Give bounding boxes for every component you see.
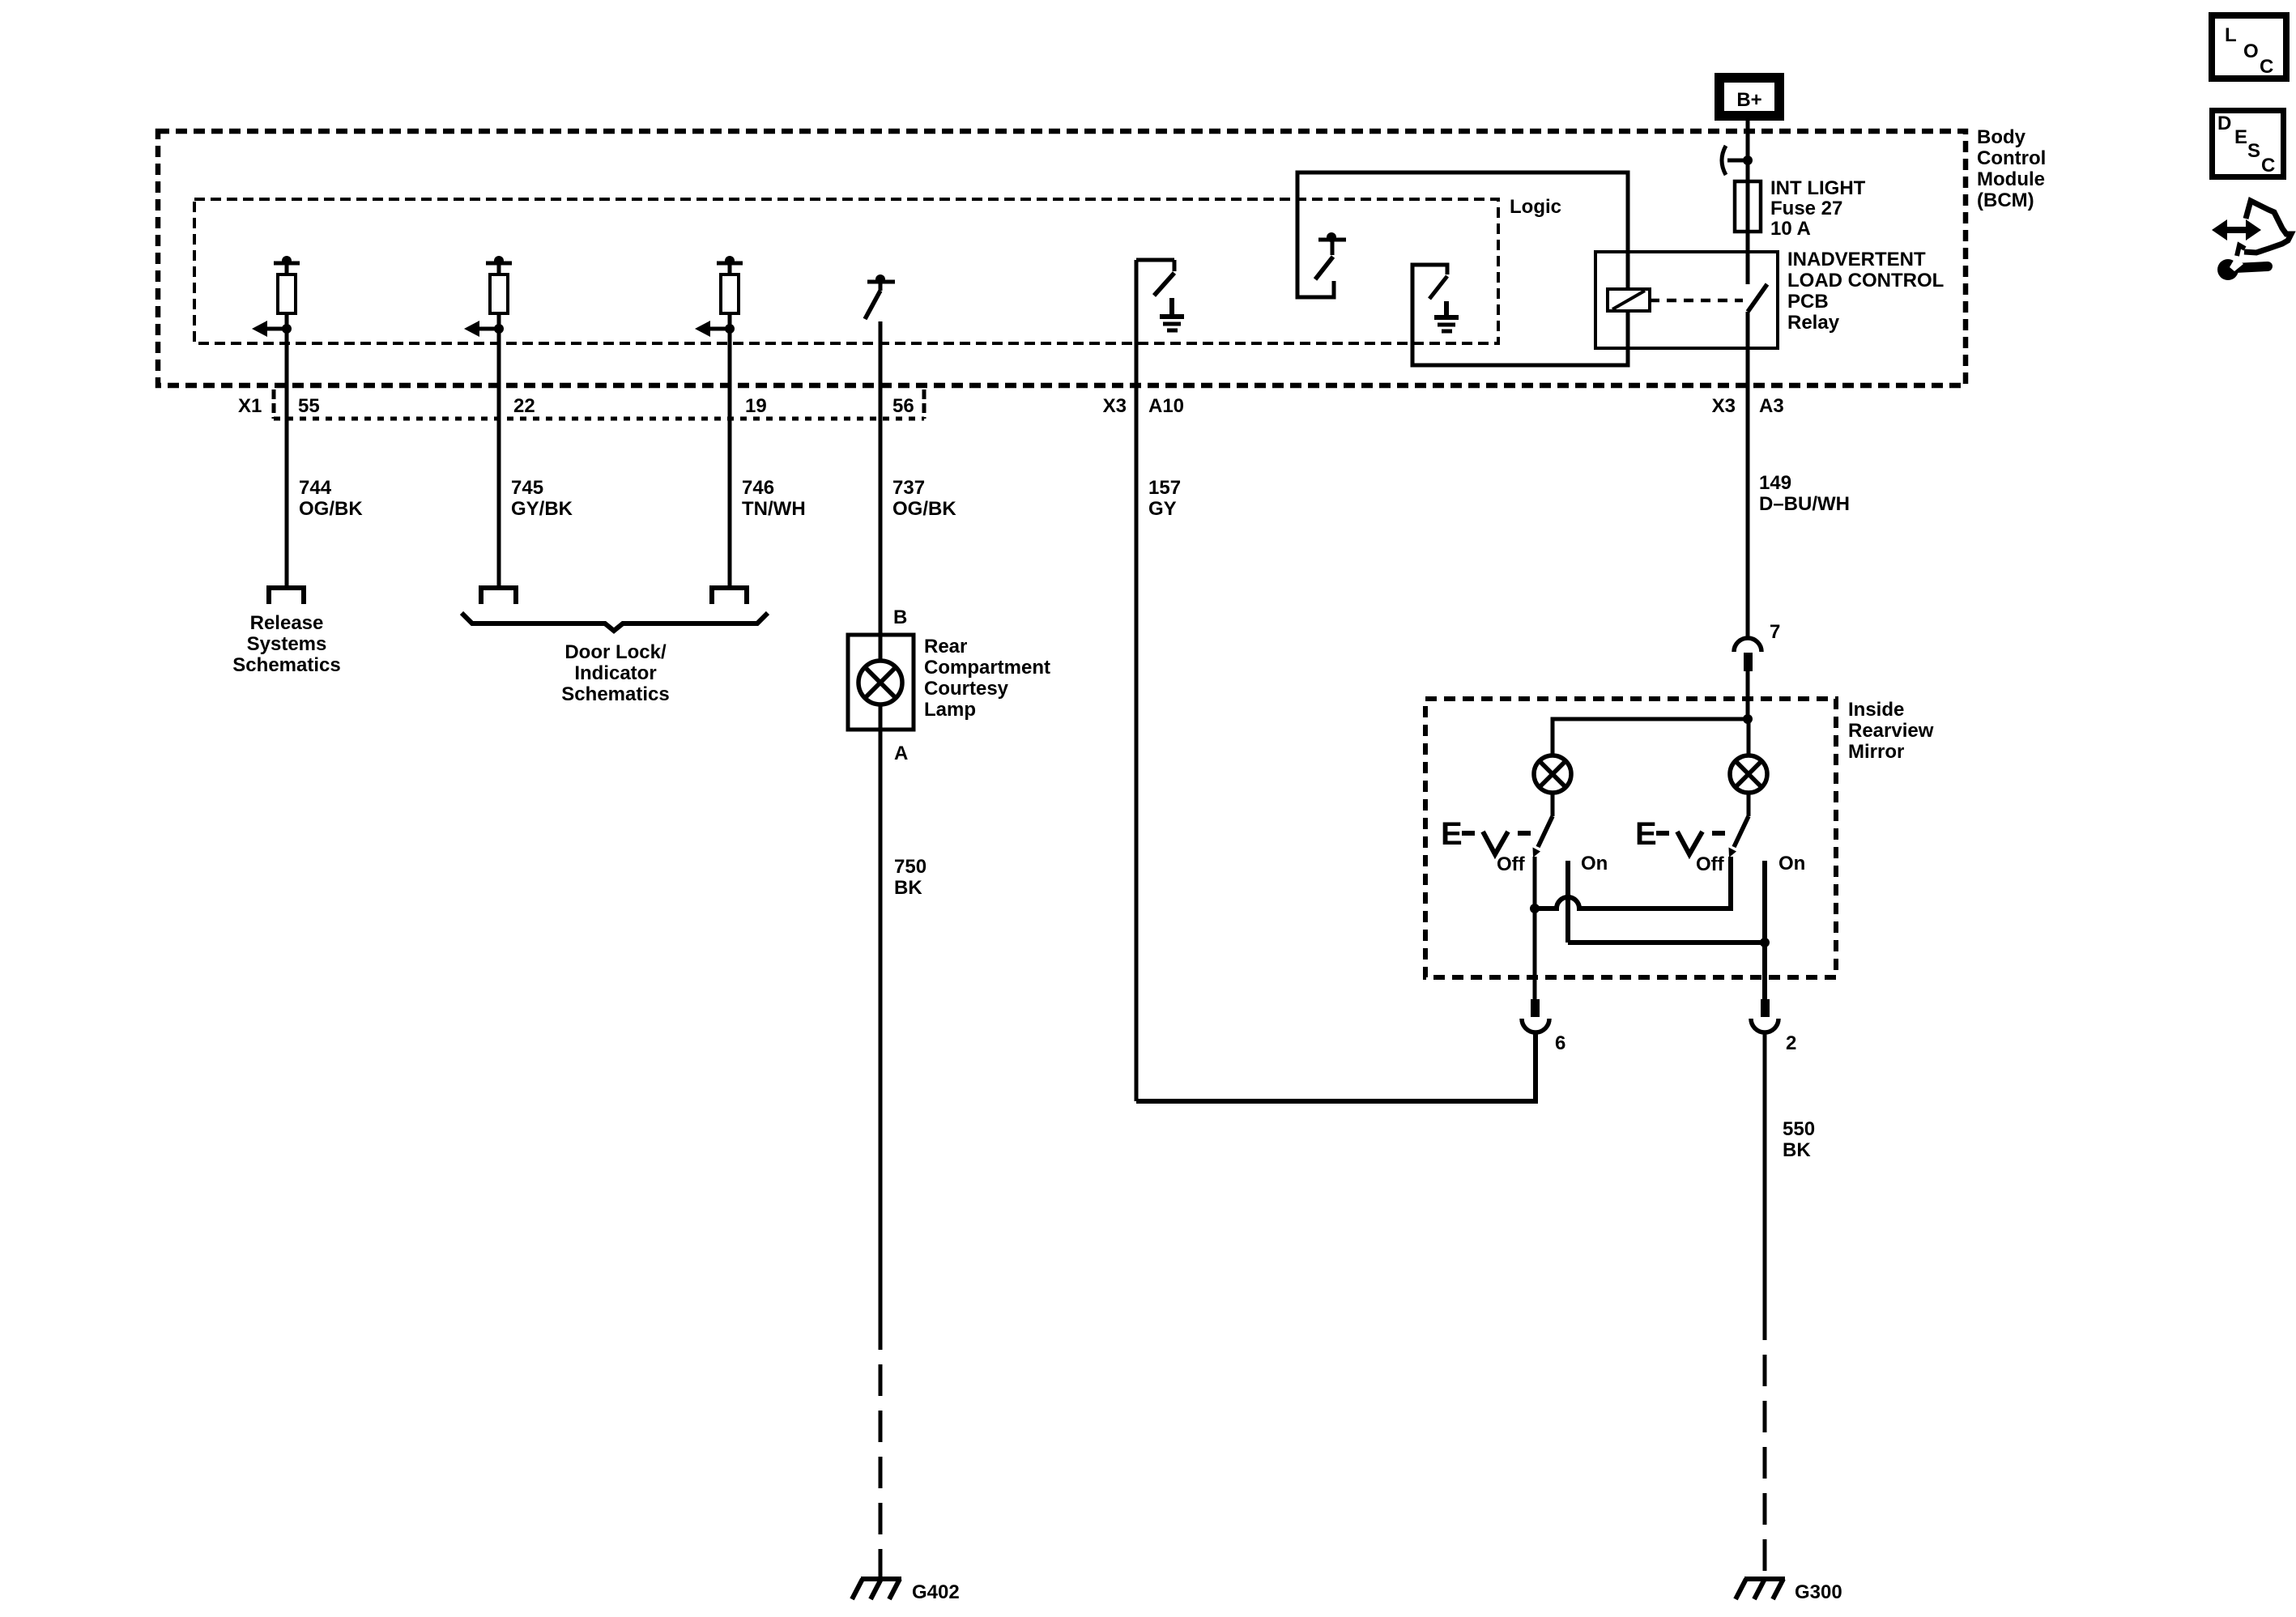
Rear Compartment Courtesy Lamp box	[848, 635, 914, 730]
svg-text:B: B	[893, 606, 907, 628]
svg-text:Off: Off	[1696, 853, 1725, 875]
feed junction dot in mirror	[1743, 714, 1753, 724]
svg-text:149: 149	[1759, 472, 1791, 494]
svg-text:D: D	[2217, 113, 2231, 134]
svg-text:Body: Body	[1977, 126, 2026, 148]
svg-text:Door Lock/: Door Lock/	[564, 641, 667, 663]
svg-text:D–BU/WH: D–BU/WH	[1759, 493, 1850, 515]
wire label 744 OG/BK	[299, 477, 363, 520]
svg-text:55: 55	[298, 395, 320, 417]
brace note Door Lock/ Indicator Schematics	[561, 641, 669, 705]
terminator note Release Systems Schematics	[232, 612, 340, 676]
svg-text:746: 746	[742, 477, 774, 499]
relay label	[1787, 249, 1944, 334]
svg-text:BK: BK	[1783, 1139, 1811, 1161]
svg-text:Systems: Systems	[247, 633, 327, 655]
svg-text:GY/BK: GY/BK	[511, 498, 573, 520]
svg-text:L: L	[2225, 24, 2237, 46]
ground symbol inside BCM at A10 switch	[1160, 298, 1184, 330]
svg-text:OG/BK: OG/BK	[892, 498, 956, 520]
ground switch A10 (157 GY circuit inside BCM)	[1136, 260, 1174, 296]
wrench icon	[2217, 257, 2268, 280]
svg-text:G300: G300	[1795, 1581, 1842, 1603]
right mirror switch blade	[1734, 816, 1749, 847]
wire label 737 OG/BK	[892, 477, 956, 520]
logic switch 1	[1315, 240, 1346, 279]
svg-text:C: C	[2261, 155, 2275, 177]
wire On contacts to pin 2	[1568, 940, 1765, 945]
wire 149 from relay down	[1746, 312, 1750, 638]
branch wire to right mirror lamp	[1747, 719, 1751, 755]
wire pin6 node to right switch common (with hop)	[1535, 857, 1731, 908]
B+ power feed box	[1715, 73, 1784, 121]
lamp symbol (circle with X)	[858, 635, 902, 730]
wire from left lamp to switch	[1551, 793, 1555, 816]
svg-text:E: E	[1635, 816, 1657, 852]
svg-text:A3: A3	[1759, 395, 1784, 417]
svg-text:A10: A10	[1148, 395, 1184, 417]
wire 550 BK solid part	[1763, 1032, 1767, 1340]
svg-text:56: 56	[892, 395, 914, 417]
svg-text:X3: X3	[1103, 395, 1127, 417]
junction dot on wire 744	[282, 256, 292, 266]
svg-text:Compartment: Compartment	[924, 657, 1050, 679]
ground G300	[1736, 1579, 1785, 1599]
BCM outer dashed box (Body Control Module)	[158, 131, 1966, 385]
svg-text:Inside: Inside	[1848, 699, 1904, 721]
svg-text:LOAD CONTROL: LOAD CONTROL	[1787, 270, 1944, 291]
fuse label	[1770, 177, 1866, 240]
svg-text:Schematics: Schematics	[561, 683, 669, 705]
E dashed link with V left	[1462, 832, 1531, 854]
svg-text:Release: Release	[250, 612, 324, 634]
wire label 550 BK	[1783, 1118, 1815, 1161]
ground symbol of logic switch 2	[1434, 301, 1459, 331]
svg-text:Module: Module	[1977, 168, 2045, 190]
DESC reference box	[2213, 111, 2284, 177]
svg-text:550: 550	[1783, 1118, 1815, 1140]
left mirror switch blade	[1538, 816, 1553, 847]
svg-text:7: 7	[1770, 621, 1780, 643]
svg-text:22: 22	[513, 395, 535, 417]
door jamb switch on wire 737	[865, 282, 895, 319]
arrowhead pointing left on wire 745	[464, 321, 479, 337]
svg-text:C: C	[2260, 56, 2273, 78]
inline connector 7	[1734, 638, 1761, 652]
svg-text:Schematics: Schematics	[232, 654, 340, 676]
wire 737 from switch to lamp	[879, 321, 883, 635]
svg-text:INADVERTENT: INADVERTENT	[1787, 249, 1926, 270]
right On contact wire down to pin 2	[1762, 861, 1767, 999]
svg-text:6: 6	[1555, 1032, 1565, 1054]
svg-text:PCB: PCB	[1787, 291, 1829, 313]
svg-text:2: 2	[1786, 1032, 1796, 1054]
svg-text:Rear: Rear	[924, 636, 967, 657]
arrowhead pointing left on wire 744	[252, 321, 267, 337]
wire from B+ to fuse and relay	[1746, 121, 1750, 284]
svg-text:19: 19	[745, 395, 767, 417]
junction dot on wire 745	[494, 256, 504, 266]
svg-text:Courtesy: Courtesy	[924, 678, 1009, 700]
svg-text:Mirror: Mirror	[1848, 741, 1904, 763]
wire label 745 GY/BK	[511, 477, 573, 520]
svg-text:X1: X1	[238, 395, 262, 417]
svg-text:S: S	[2247, 140, 2260, 162]
svg-text:745: 745	[511, 477, 543, 499]
arrowhead pointing left on wire 746	[695, 321, 710, 337]
svg-text:On: On	[1778, 853, 1805, 874]
svg-text:10 A: 10 A	[1770, 218, 1811, 240]
left On contact wire	[1565, 861, 1570, 943]
brace for door lock group	[462, 613, 768, 631]
svg-text:Indicator: Indicator	[574, 662, 656, 684]
Logic box outline	[1297, 172, 1628, 365]
svg-text:Off: Off	[1497, 853, 1526, 875]
svg-text:GY: GY	[1148, 498, 1177, 520]
svg-text:737: 737	[892, 477, 925, 499]
svg-text:E: E	[1441, 816, 1463, 852]
svg-text:B+: B+	[1736, 89, 1761, 111]
wire 750 BK dashed part	[879, 1350, 883, 1579]
relay box INADVERTENT LOAD CONTROL PCB Relay	[1595, 252, 1778, 348]
door switch resistor wire at x=354	[266, 263, 304, 604]
BCM label Body Control Module (BCM)	[1977, 126, 2046, 211]
svg-text:O: O	[2243, 40, 2259, 62]
svg-text:Logic: Logic	[1510, 196, 1561, 218]
svg-text:157: 157	[1148, 477, 1181, 499]
branch wire to left mirror lamp	[1553, 719, 1748, 755]
relay contact blade	[1748, 284, 1767, 312]
svg-text:Fuse 27: Fuse 27	[1770, 198, 1842, 219]
svg-text:(BCM): (BCM)	[1977, 189, 2034, 211]
svg-text:TN/WH: TN/WH	[742, 498, 806, 520]
wire 157 GY horizontal run to mirror pin 6	[1136, 1032, 1536, 1101]
wire label 750 BK	[894, 856, 926, 899]
Inside Rearview Mirror dashed box	[1425, 699, 1836, 977]
svg-text:750: 750	[894, 856, 926, 878]
mirror label Inside Rearview Mirror	[1848, 699, 1934, 763]
left switch common wire down to pin 6	[1533, 857, 1537, 999]
wire 750 BK solid part	[879, 730, 883, 1350]
E dashed link with V right	[1656, 832, 1725, 854]
svg-text:E: E	[2234, 126, 2247, 148]
svg-text:Lamp: Lamp	[924, 699, 976, 721]
left mirror lamp	[1534, 755, 1571, 793]
inline connector 6	[1531, 999, 1540, 1017]
svg-text:BK: BK	[894, 877, 922, 899]
LOC reference box	[2212, 15, 2286, 79]
svg-text:A: A	[894, 743, 908, 764]
lamp label	[924, 636, 1050, 721]
inline connector 2	[1761, 999, 1770, 1017]
svg-text:INT LIGHT: INT LIGHT	[1770, 177, 1866, 199]
inner dashed box (switch group inside BCM)	[194, 199, 1498, 343]
right mirror lamp	[1730, 755, 1767, 793]
svg-text:Relay: Relay	[1787, 312, 1840, 334]
svg-text:Rearview: Rearview	[1848, 720, 1934, 742]
wire 157 GY vertical	[1135, 260, 1139, 1101]
wire label 157 GY	[1148, 477, 1181, 520]
double arrow icon	[2212, 219, 2261, 240]
feed continuation hook symbol	[1722, 146, 1726, 175]
svg-text:OG/BK: OG/BK	[299, 498, 363, 520]
svg-text:X3: X3	[1712, 395, 1736, 417]
svg-text:744: 744	[299, 477, 332, 499]
svg-text:G402: G402	[912, 1581, 960, 1603]
ground G402	[852, 1579, 901, 1599]
wire 550 BK dashed part	[1763, 1340, 1767, 1579]
fuse INT LIGHT Fuse 27 10A	[1735, 181, 1761, 232]
junction dot on wire 746	[725, 256, 735, 266]
wire 149 into mirror box	[1746, 671, 1750, 719]
relay coil	[1608, 289, 1650, 311]
X1 connector dotted line	[274, 389, 924, 419]
door switch resistor wire at x=901	[709, 263, 747, 604]
relay coil to contact dashed link	[1650, 299, 1743, 303]
wire label 149 D-BU/WH	[1759, 472, 1850, 515]
wire label 746 TN/WH	[742, 477, 806, 520]
svg-text:On: On	[1581, 853, 1608, 874]
svg-text:Control: Control	[1977, 147, 2046, 169]
door switch resistor wire at x=616	[479, 263, 516, 604]
claw outline icon	[2244, 201, 2291, 253]
wire from right lamp to switch	[1747, 793, 1751, 816]
